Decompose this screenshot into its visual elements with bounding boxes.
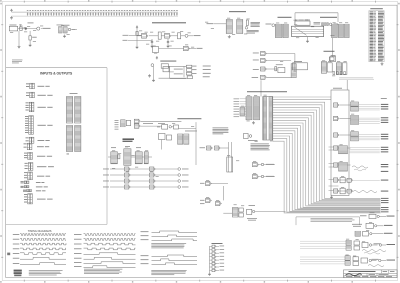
wire xyxy=(110,186,125,188)
wire xyxy=(137,35,142,37)
driver gate C xyxy=(363,232,369,237)
capacitor C117 xyxy=(71,10,73,16)
wire in xyxy=(223,212,232,214)
note paragraph xyxy=(311,218,355,222)
section box INPUTS & OUTPUTS xyxy=(6,68,107,225)
capacitor C118 xyxy=(74,10,76,16)
wire xyxy=(131,180,150,182)
component value labels xyxy=(10,18,372,257)
transistor Q7 xyxy=(169,126,171,128)
note paragraph col3a xyxy=(151,243,186,248)
wire xyxy=(141,125,162,127)
IC U34 rows xyxy=(121,120,126,127)
capacitor C155 xyxy=(171,10,173,16)
wire branch xyxy=(183,66,185,77)
resistor R20 xyxy=(118,155,120,159)
driver gate B xyxy=(366,223,374,228)
wire vertical right xyxy=(195,122,197,165)
buffer U3C xyxy=(178,33,181,39)
note paragraph col2 xyxy=(84,269,122,274)
ground xyxy=(152,79,155,82)
IC U60 rows xyxy=(111,152,118,164)
wire down to serial section xyxy=(260,80,262,96)
buffer U75B xyxy=(239,213,243,217)
waveform label col3 row5 xyxy=(141,258,149,261)
note paragraph col3b xyxy=(151,270,186,275)
wire right xyxy=(179,128,197,130)
label near xyxy=(192,65,197,68)
connector group EXPANSION xyxy=(23,189,31,191)
capacitor C108 xyxy=(48,10,50,16)
net label E xyxy=(387,259,396,262)
buffer column box U50 xyxy=(331,90,349,196)
label xyxy=(174,73,183,76)
transistor Q9 xyxy=(249,135,252,138)
capacitor C131 xyxy=(108,10,110,16)
waveform trace col3 row4 xyxy=(152,255,198,257)
note text block top-left xyxy=(12,60,22,64)
wire xyxy=(340,118,351,120)
gate U65A xyxy=(150,167,156,171)
IC U61 rows xyxy=(124,149,131,166)
label xyxy=(143,122,153,125)
waveform trace col1 row7 xyxy=(20,263,66,265)
latch U35 xyxy=(126,120,130,125)
gate U6D xyxy=(187,76,192,79)
spare gate 1 xyxy=(210,245,225,248)
label xyxy=(38,94,53,97)
labels row 2 xyxy=(381,116,389,119)
driver row E OR gate xyxy=(361,258,368,263)
label input 3 xyxy=(103,186,109,189)
gate U50F xyxy=(334,178,340,182)
waveform label col2 row6 xyxy=(74,257,82,260)
connector group SERIAL PORT lower xyxy=(24,143,32,150)
wire xyxy=(171,35,178,37)
IC U38 rows xyxy=(178,134,183,144)
label row 3 xyxy=(253,68,259,71)
IC U25 rows xyxy=(336,63,341,75)
label input 0 xyxy=(103,168,109,171)
transistor Q2A xyxy=(68,28,71,31)
waveform trace col2 row8 xyxy=(84,266,136,268)
label column title xyxy=(333,87,342,90)
connector P3 rows xyxy=(283,24,288,37)
connector CN1 (tall) xyxy=(263,97,273,141)
wire xyxy=(131,174,150,176)
gate U71B xyxy=(253,175,259,179)
waveform trace col2 row4 xyxy=(84,248,136,250)
IC U11 xyxy=(237,20,243,34)
output pin 1 xyxy=(178,174,181,177)
label xyxy=(266,175,274,178)
waveform label col1 row1 xyxy=(13,233,19,236)
label xyxy=(37,165,54,168)
wire xyxy=(156,180,178,182)
driver row D input bus xyxy=(300,241,346,249)
connector group STEREO AUDIO xyxy=(26,83,34,89)
capacitor C112 xyxy=(58,10,60,16)
capacitor row C30-C33 xyxy=(333,72,345,75)
capacitor C147 xyxy=(150,10,152,16)
crystal oscillator module X1 xyxy=(9,26,17,31)
capacitor C1 xyxy=(25,27,27,30)
label text xyxy=(314,22,321,24)
label xyxy=(36,186,48,189)
capacitor C101 xyxy=(29,10,31,16)
wire vertical xyxy=(153,66,155,78)
label row 1 xyxy=(253,52,259,55)
driver row D latches xyxy=(346,240,351,245)
label xyxy=(62,24,70,27)
waveform label col1 row6 xyxy=(13,257,19,260)
transistor Q1 xyxy=(37,27,40,30)
wire xyxy=(168,65,186,67)
wire box edge xyxy=(222,186,224,200)
gate U76 xyxy=(247,209,252,214)
wire vertical pair xyxy=(228,142,230,172)
bus stub wires to gate rows xyxy=(329,147,339,191)
wires between ICs xyxy=(108,156,111,158)
label 8MHZ xyxy=(197,47,203,50)
label CCK far xyxy=(203,72,211,75)
flip-flop divider U4 xyxy=(153,47,159,53)
labels row 3 xyxy=(381,133,389,136)
capacitor C134 xyxy=(116,10,118,16)
wire xyxy=(110,180,125,182)
ground xyxy=(252,121,255,124)
resistor pack table RP2 xyxy=(75,97,81,124)
wire xyxy=(29,31,31,36)
title I/O SECTION xyxy=(229,10,246,13)
crystal Y1 xyxy=(158,32,161,39)
label 7MHZ far xyxy=(203,65,211,68)
label xyxy=(32,36,37,39)
label near xyxy=(192,68,197,71)
waveform trace col2 row7 xyxy=(84,262,136,264)
gate U69B xyxy=(215,146,221,150)
waveform label col2 row5 xyxy=(74,252,82,255)
capacitor C113 xyxy=(61,10,63,16)
wire to ground xyxy=(18,31,20,45)
connector group RF INTERFACE xyxy=(26,92,34,98)
label xyxy=(200,146,206,149)
wire xyxy=(129,34,142,36)
capacitor C152 xyxy=(163,10,165,16)
waveform trace col1 row3 xyxy=(20,243,66,245)
title PROCESSOR SECTION xyxy=(320,16,337,19)
waveform label col2 row4 xyxy=(74,247,82,250)
IC U41 rows xyxy=(254,97,260,120)
spare gate 8 xyxy=(210,269,225,272)
output pin 0 xyxy=(178,168,181,171)
spare gate 2 xyxy=(210,249,225,252)
latch row 2 xyxy=(351,115,359,119)
gate U37A xyxy=(162,125,168,130)
annotation cursive D xyxy=(362,250,386,252)
IC U63 rows xyxy=(144,152,148,164)
transistor Q12 xyxy=(252,210,254,212)
revision stamp xyxy=(14,270,22,277)
waveform trace col2 row5 xyxy=(84,253,136,255)
net label C xyxy=(384,232,393,235)
gate U7A xyxy=(261,52,267,56)
label delay line xyxy=(276,63,283,66)
wire into column top xyxy=(346,80,348,90)
gate U7D xyxy=(261,75,267,79)
resistor network RP5 xyxy=(322,23,329,26)
wire xyxy=(110,174,125,176)
labels row 6 xyxy=(381,179,389,182)
wire xyxy=(156,174,178,176)
wire xyxy=(110,168,125,170)
label 28MHZ output xyxy=(43,27,51,30)
capacitor C123 xyxy=(87,10,89,16)
waveform trace col1 row4 xyxy=(20,248,66,250)
IC U26 xyxy=(343,63,347,75)
label xyxy=(182,168,189,171)
ground xyxy=(63,35,66,38)
title CLOCK GENERATOR xyxy=(152,22,186,23)
waveform label col2 row2 xyxy=(74,238,82,241)
buffer U2A xyxy=(59,27,63,33)
capacitor C105 xyxy=(40,10,42,16)
label 3.5MHZ far xyxy=(203,68,211,71)
inline label xyxy=(374,242,381,245)
label stack left of U40 xyxy=(234,99,247,118)
wire xyxy=(382,244,386,246)
gate U65B xyxy=(150,173,156,177)
gate U64B xyxy=(125,173,131,177)
gate U73B xyxy=(216,202,222,206)
labels row 4 xyxy=(381,146,389,149)
title MFM DATA SEPARATOR xyxy=(177,117,201,120)
gate U69A xyxy=(207,146,213,150)
ROM U22 xyxy=(293,63,308,70)
wire out A xyxy=(379,215,386,217)
delay line DL1 xyxy=(291,64,296,78)
wire xyxy=(214,23,226,25)
driver row D gates xyxy=(354,241,360,245)
gate row 6 xyxy=(340,178,345,183)
transistor Q11 xyxy=(261,175,264,178)
waveform trace col2 row2 xyxy=(84,239,136,241)
wire vertical rail xyxy=(136,28,138,46)
waveform label col3 row3 xyxy=(141,238,149,241)
wire xyxy=(169,71,174,73)
capacitor C135 xyxy=(119,10,121,16)
label arrow left xyxy=(266,23,272,26)
label long underline xyxy=(339,77,373,80)
label xyxy=(37,198,53,201)
connector group DISK PORT xyxy=(25,163,33,171)
labels above ICs xyxy=(111,146,116,149)
capacitor C119 xyxy=(77,10,79,16)
ground xyxy=(306,40,309,43)
label xyxy=(38,124,53,127)
gate U50C xyxy=(334,133,340,137)
capacitor C8 xyxy=(167,39,169,45)
wire out B xyxy=(377,225,384,227)
title ROM SECTION xyxy=(324,50,335,53)
title block xyxy=(344,270,398,278)
gate U65D xyxy=(150,185,156,189)
label xyxy=(38,139,50,142)
power tick xyxy=(19,25,21,27)
label net names bottom bus A xyxy=(381,197,389,200)
ground xyxy=(228,35,231,38)
connector group MONITOR VIDEO xyxy=(26,102,34,112)
capacitor C156 xyxy=(174,10,176,16)
spare gate 7 xyxy=(210,266,225,269)
ground xyxy=(29,44,32,47)
gate U50G xyxy=(334,189,340,193)
zone label xyxy=(7,253,10,256)
gate U6C xyxy=(186,72,191,75)
gate U64D xyxy=(125,185,131,189)
capacitor C121 xyxy=(82,10,84,16)
wire +5V rail xyxy=(12,11,179,13)
oscillator block U5 xyxy=(161,64,168,68)
labels row 1 xyxy=(381,103,389,106)
gate U36A xyxy=(134,119,140,123)
net label A xyxy=(387,215,395,218)
capacitor C132 xyxy=(111,10,113,16)
wire long right xyxy=(255,211,286,213)
connector P2 rows xyxy=(275,24,282,37)
annotation cursive E xyxy=(368,265,384,267)
label near xyxy=(192,72,197,75)
driver row B labels xyxy=(352,223,362,226)
wire data line xyxy=(141,120,182,122)
waveform label col2 row1 xyxy=(74,233,82,236)
wire xyxy=(221,147,229,149)
capacitor C124 xyxy=(90,10,92,16)
driver row D OR gate xyxy=(362,243,368,248)
IC U10 (buffer latch) xyxy=(226,20,232,34)
ground xyxy=(136,46,139,49)
wire xyxy=(159,48,184,50)
inverter U4B xyxy=(184,46,190,50)
box small xyxy=(329,57,334,61)
gate U73A xyxy=(206,199,212,203)
waveform label col1 row5 xyxy=(13,252,19,255)
latch row 3 xyxy=(351,132,359,136)
transistor Q6 xyxy=(329,23,332,26)
wire ground rail xyxy=(12,15,179,17)
power rail VCC arrow xyxy=(136,26,138,29)
label xyxy=(182,174,189,177)
labels xyxy=(200,199,205,202)
waveform trace col2 row1 xyxy=(84,234,136,236)
annotation squiggle 2 xyxy=(353,191,377,193)
capacitor C103 xyxy=(35,10,37,16)
wire xyxy=(340,104,351,106)
waveform trace col1 row5 xyxy=(20,253,66,255)
label CDAC far xyxy=(203,75,210,78)
wire xyxy=(171,126,173,128)
waveform trace col3 row3 xyxy=(152,239,198,241)
waveform label col2 row7 xyxy=(74,261,82,264)
capacitor C137 xyxy=(124,10,126,16)
transistor Q2 xyxy=(185,34,188,37)
label above xyxy=(249,204,256,207)
wire xyxy=(259,176,275,178)
driver row E gates xyxy=(353,257,359,261)
wire xyxy=(267,60,291,62)
CPU U21 (large) xyxy=(292,26,324,36)
driver row A label xyxy=(370,211,375,214)
waveform label col1 row4 xyxy=(13,247,19,250)
waveform trace col3 row5 xyxy=(152,259,198,261)
svg-text:TIMING DIAGRAMS: TIMING DIAGRAMS xyxy=(28,229,52,233)
svg-text:INPUTS & OUTPUTS: INPUTS & OUTPUTS xyxy=(40,72,73,76)
wire vertical mid xyxy=(169,66,171,78)
waveform trace col2 row6 xyxy=(84,257,136,259)
buffer U75A xyxy=(239,208,243,212)
note text xyxy=(247,30,259,33)
spare gate 3 xyxy=(210,252,225,255)
resistor pack table RP3 xyxy=(66,126,72,152)
wire 8MHZ xyxy=(190,48,196,50)
spare gate 4 xyxy=(210,255,225,258)
inverter U3B xyxy=(165,34,171,39)
wire xyxy=(131,186,150,188)
connector group PARALLEL PORT xyxy=(24,152,32,159)
bus band row 2 xyxy=(359,118,380,123)
label stack left xyxy=(115,120,119,130)
waveform label col3 row4 xyxy=(141,254,149,257)
ground xyxy=(167,45,170,48)
driver row E input bus xyxy=(300,257,345,264)
wire xyxy=(267,68,277,70)
gate U50E xyxy=(334,163,340,167)
title J1 CONNECTOR xyxy=(370,7,383,10)
gate U50B xyxy=(334,116,340,120)
gate U36B xyxy=(134,124,140,128)
IC U62 rows xyxy=(135,152,142,164)
transistor Q4 xyxy=(245,27,248,30)
wire xyxy=(212,183,229,185)
inverter U3A xyxy=(142,34,148,39)
spare gate 5 xyxy=(210,259,225,262)
waveform trace col1 row1 xyxy=(20,234,66,236)
resistor R2 xyxy=(29,36,31,40)
transistor xyxy=(379,244,381,246)
capacitor C146 xyxy=(147,10,149,16)
wire bottom xyxy=(159,77,188,79)
capacitor C116 xyxy=(69,10,71,16)
wire xyxy=(340,190,351,192)
label xyxy=(200,182,205,185)
box small xyxy=(330,57,336,62)
label xyxy=(38,106,53,109)
waveform label col1 row7 xyxy=(13,262,19,265)
pin list text xyxy=(251,22,260,27)
capacitor C106 xyxy=(43,10,45,16)
gate U65C xyxy=(150,179,156,183)
wire oscillator output xyxy=(18,28,37,30)
ground xyxy=(208,273,211,276)
label header OUT xyxy=(381,97,387,100)
waveform label col3 row2 xyxy=(141,234,149,237)
capacitor C126 xyxy=(95,10,97,16)
capacitor C143 xyxy=(139,10,141,16)
resistor R5 xyxy=(136,32,138,36)
IC U74 rows xyxy=(232,208,238,218)
label net names bottom bus B xyxy=(381,206,389,209)
connector group INTERNAL HEADER xyxy=(24,194,32,204)
